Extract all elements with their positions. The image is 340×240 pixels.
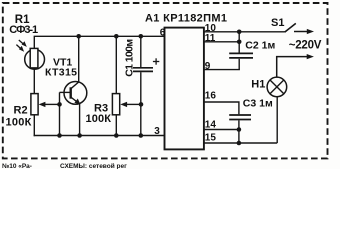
wire: base lead bbox=[60, 91, 71, 93]
node B: R3 top bus junction bbox=[114, 34, 119, 39]
node: C3 on pin15 line bbox=[237, 141, 242, 146]
wire: R3 top lead bbox=[115, 36, 117, 93]
wire: pin 11 line bbox=[204, 41, 239, 43]
svg-text:100К: 100К bbox=[6, 117, 32, 129]
wire: R3 bottom lead bbox=[115, 115, 117, 136]
wire: R1 bottom to R2 top bbox=[33, 69, 35, 93]
R3 wiper arrow bbox=[120, 102, 141, 107]
resistor R2 (trimmer) bbox=[31, 94, 38, 115]
wire: top bus pin6 node bbox=[34, 36, 164, 49]
svg-text:С2 1м: С2 1м bbox=[245, 39, 275, 51]
svg-text:КТ315: КТ315 bbox=[45, 67, 77, 79]
svg-text:С1 100м: С1 100м bbox=[124, 39, 136, 77]
wire: pin 16 line bbox=[204, 102, 239, 114]
svg-text:С3 1м: С3 1м bbox=[243, 98, 273, 110]
node: C2 lead on pin11 line bbox=[237, 40, 242, 45]
emitter arrowhead bbox=[74, 99, 80, 105]
op-amp U1: IC A1 КР1182ПМ1 bbox=[165, 28, 204, 150]
node: emitter-bus junction bbox=[77, 133, 82, 138]
wire: bottom bus to IC pin 3 bbox=[34, 135, 165, 137]
wire: pin 15 line bbox=[204, 142, 277, 144]
lamp H1 bbox=[267, 77, 287, 97]
svg-text:R2: R2 bbox=[14, 104, 28, 116]
svg-text:6: 6 bbox=[160, 27, 166, 38]
wire: R2 bottom lead bbox=[33, 115, 35, 136]
light arrow 2 bbox=[16, 45, 21, 50]
svg-text:15: 15 bbox=[205, 132, 217, 143]
emitter diagonal bbox=[71, 97, 79, 103]
node C: C1 top bus junction bbox=[139, 34, 144, 39]
R2 wiper arrow bbox=[39, 102, 60, 107]
node: C2 top on pin10 line bbox=[237, 30, 242, 35]
svg-text:14: 14 bbox=[205, 119, 217, 130]
svg-text:СХЕМЫ: сетевой рег: СХЕМЫ: сетевой рег bbox=[60, 162, 127, 169]
switch S1 bbox=[285, 23, 296, 32]
dashed enclosure border bbox=[3, 3, 328, 158]
node: C1 bottom bus junction bbox=[139, 133, 144, 138]
wire: emitter to bottom bus bbox=[79, 104, 81, 136]
resistor R3 (trimmer) bbox=[112, 94, 119, 115]
svg-text:3: 3 bbox=[154, 126, 160, 137]
wire: pin 9 line bbox=[204, 69, 240, 71]
node A: collector-bus junction bbox=[76, 34, 81, 39]
svg-text:100К: 100К bbox=[86, 113, 112, 125]
svg-text:СФ3-1: СФ3-1 bbox=[9, 24, 38, 36]
node: R2 wiper junction bbox=[57, 102, 62, 107]
svg-text:16: 16 bbox=[205, 91, 217, 102]
node: C3 on pin14 line bbox=[237, 127, 242, 132]
wire: lamp top lead and mains arrow bottom bbox=[277, 54, 314, 77]
capacitor C3 bbox=[229, 115, 251, 143]
capacitor C1 (electrolytic) bbox=[133, 36, 159, 135]
resistor R1 (photoresistor) bbox=[16, 40, 44, 69]
light arrow 1 bbox=[19, 40, 24, 45]
wire: collector to top bus bbox=[78, 36, 80, 82]
wire: pin 14 line bbox=[204, 129, 239, 131]
svg-text:Н1: Н1 bbox=[251, 79, 265, 91]
transistor Q1 VT1 bbox=[64, 82, 87, 105]
svg-text:~220V: ~220V bbox=[289, 39, 322, 51]
plus sign bbox=[153, 61, 159, 63]
wire: pin 10 line to switch bbox=[204, 31, 285, 33]
wire: wiper/base vertical link bbox=[59, 92, 61, 135]
svg-text:S1: S1 bbox=[271, 17, 284, 29]
node: base line to bus junction bbox=[57, 133, 62, 138]
wire: mains arrow top bbox=[294, 29, 314, 34]
collector diagonal bbox=[71, 82, 79, 89]
capacitor C2 bbox=[229, 32, 253, 70]
node: R3 bottom bus junction bbox=[114, 133, 119, 138]
svg-text:№10 «Ра-: №10 «Ра- bbox=[2, 163, 32, 169]
node: R3 wiper to C1 lead junction bbox=[139, 102, 144, 107]
caption remnants (cut off) bbox=[2, 162, 127, 170]
wire: lamp bottom lead bbox=[276, 97, 278, 143]
